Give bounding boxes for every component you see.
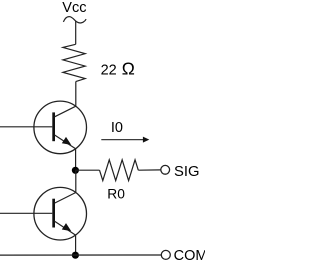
Q1 emitter arrowhead <box>62 138 70 145</box>
Vcc squiggle (tilde connector) <box>63 17 86 23</box>
wire node to R0 <box>75 169 99 171</box>
svg-text:22: 22 <box>101 63 117 79</box>
Q2 collector diagonal <box>55 193 76 204</box>
wire node to Q2 collector <box>75 170 77 192</box>
transistor Q2 (lower NPN) <box>34 187 87 240</box>
Q1 collector diagonal <box>55 106 76 117</box>
Q2 emitter diagonal <box>55 221 76 235</box>
wire Vcc squiggle to resistor <box>75 21 77 44</box>
arrow I0 (current direction) <box>101 139 143 141</box>
terminal COM (open circle) <box>161 250 170 259</box>
node junction dot lower <box>72 252 79 259</box>
svg-text:I0: I0 <box>111 120 123 136</box>
svg-text:R0: R0 <box>107 187 125 202</box>
node junction dot upper <box>72 167 79 174</box>
wire resistor to Q1 collector <box>75 82 77 107</box>
transistor Q1 (upper NPN) <box>34 101 87 154</box>
resistor R0 (horizontal zigzag) <box>100 160 139 181</box>
svg-text:Ω: Ω <box>122 59 135 79</box>
Q1 circle <box>34 101 87 154</box>
wire Q2 emitter to bottom node <box>75 235 77 255</box>
wire Q2 base (to left edge) <box>0 212 52 214</box>
wire Q1 emitter to node <box>75 149 77 171</box>
terminal SIG (open circle) <box>161 165 170 174</box>
wire R0 to SIG terminal <box>138 169 160 171</box>
svg-text:SIG: SIG <box>174 164 200 180</box>
svg-text:Vcc: Vcc <box>62 0 86 16</box>
Q1 base bar <box>52 112 55 141</box>
Q2 base bar <box>52 199 55 228</box>
wire Q1 base (to left edge) <box>0 126 52 128</box>
wire bottom rail (to left edge and to COM) <box>0 254 161 256</box>
svg-text:COM: COM <box>174 248 205 261</box>
Q2 emitter arrowhead <box>62 224 70 231</box>
Q2 circle <box>34 187 87 240</box>
resistor 22 ohm (vertical zigzag) <box>63 44 85 81</box>
Q1 emitter diagonal <box>55 135 76 149</box>
